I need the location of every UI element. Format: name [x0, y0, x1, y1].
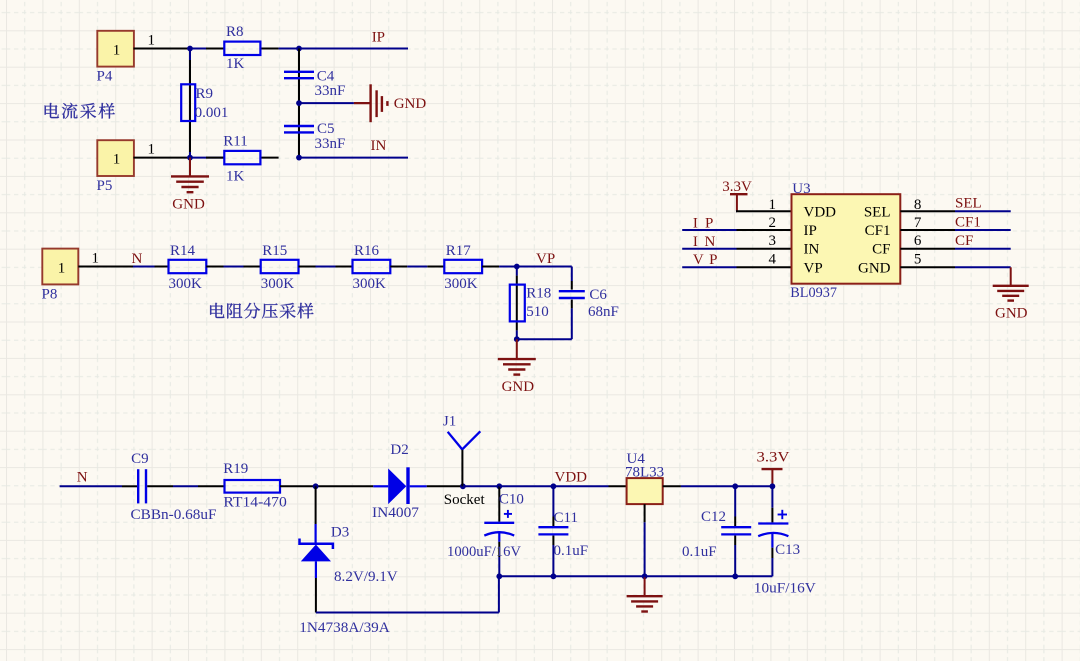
node junction VP	[514, 264, 520, 270]
wire C9 to R19	[147, 485, 224, 487]
ground GND under U4	[627, 576, 663, 611]
pin U4 right	[663, 485, 773, 487]
wire D2 to J1	[427, 485, 463, 487]
svg-text:33nF: 33nF	[315, 136, 346, 152]
wire net IP (U3)	[682, 215, 736, 231]
connector P4	[97, 31, 134, 85]
svg-text:C9: C9	[131, 451, 149, 467]
svg-text:300K: 300K	[261, 276, 295, 292]
wire R15-R16	[299, 266, 353, 268]
node junction C4-C5-GND	[296, 100, 302, 106]
svg-text:1: 1	[148, 32, 156, 48]
svg-text:GND: GND	[858, 260, 891, 276]
zener diode D3	[299, 486, 398, 636]
label 电流采样 (current sampling)	[45, 103, 115, 119]
svg-text:C10: C10	[499, 492, 524, 508]
svg-text:3: 3	[769, 233, 777, 249]
svg-text:0.1uF: 0.1uF	[682, 544, 717, 560]
svg-text:C13: C13	[775, 542, 800, 558]
svg-text:SEL: SEL	[955, 196, 982, 212]
node junction C10 bottom	[496, 573, 502, 579]
svg-text:GND: GND	[394, 96, 427, 112]
wire 3.3V to pin 1	[736, 210, 737, 212]
svg-text:1: 1	[113, 42, 121, 58]
svg-text:510: 510	[526, 304, 549, 320]
wire D3 bottom rail	[316, 576, 499, 612]
wire P8 to R14	[133, 266, 169, 268]
wire P4 node vertical	[189, 49, 191, 158]
power port GND (right-facing)	[354, 84, 426, 122]
pin 1 of P5	[134, 141, 191, 157]
wire net IN	[299, 138, 408, 158]
capacitor C6	[559, 267, 619, 340]
node junction P4-R9	[187, 46, 193, 52]
svg-text:33nF: 33nF	[315, 83, 346, 99]
op-amp U3 body	[790, 181, 900, 301]
svg-text:Socket: Socket	[444, 492, 486, 508]
pin 3 IN	[737, 233, 792, 249]
resistor R16	[353, 243, 391, 292]
svg-text:1: 1	[92, 250, 100, 266]
wire net CF1	[955, 214, 1011, 230]
wire VDD row	[499, 485, 608, 487]
svg-text:300K: 300K	[444, 276, 478, 292]
wire J1 to C10	[463, 485, 499, 487]
node junction C11 bottom	[551, 573, 557, 579]
svg-text:SEL: SEL	[864, 204, 891, 220]
resistor R14	[169, 243, 207, 292]
svg-text:CF: CF	[955, 233, 973, 249]
connector P5	[97, 140, 134, 194]
svg-text:300K: 300K	[353, 276, 387, 292]
svg-text:CBBn-0.68uF: CBBn-0.68uF	[131, 507, 217, 523]
capacitor C4	[284, 69, 345, 99]
svg-text:J1: J1	[443, 414, 456, 430]
resistor R11	[190, 133, 279, 184]
wire C4-C5 vertical	[298, 49, 300, 158]
bottom rail wire	[499, 575, 773, 577]
svg-text:R19: R19	[223, 461, 248, 477]
svg-text:P5: P5	[97, 178, 113, 194]
svg-text:C12: C12	[701, 509, 726, 525]
wire R16-R17	[390, 266, 444, 268]
power port 3.3V (bottom)	[757, 450, 790, 487]
node junction VDD-C11	[551, 483, 557, 489]
pin 2 IP	[737, 215, 792, 231]
svg-text:GND: GND	[172, 197, 205, 213]
svg-text:P8: P8	[42, 287, 58, 303]
svg-text:VP: VP	[804, 260, 823, 276]
capacitor C13 (polarized)	[754, 486, 816, 596]
pin U4 bottom	[644, 504, 646, 576]
resistor R15	[261, 243, 299, 292]
svg-text:D3: D3	[331, 525, 349, 541]
pin 5 GND	[900, 252, 955, 268]
pin 1 of P8	[78, 250, 133, 266]
svg-text:1K: 1K	[226, 169, 245, 185]
svg-text:IP: IP	[804, 223, 817, 239]
svg-text:C5: C5	[317, 121, 335, 137]
antenna J1 Socket	[443, 414, 486, 508]
svg-text:1K: 1K	[226, 56, 245, 72]
diode D2	[372, 442, 427, 521]
svg-text:IP: IP	[372, 30, 385, 46]
wire R19 to D2	[280, 485, 373, 487]
svg-text:GND: GND	[502, 379, 535, 395]
svg-text:0.1uF: 0.1uF	[554, 543, 589, 559]
wire net IP	[299, 30, 408, 49]
svg-text:IN: IN	[693, 234, 716, 250]
wire net IN (U3)	[682, 234, 736, 250]
svg-text:8: 8	[914, 197, 922, 213]
svg-text:N: N	[77, 470, 88, 486]
svg-text:CF1: CF1	[955, 214, 981, 230]
ground GND under P5	[171, 158, 209, 213]
svg-text:R15: R15	[262, 243, 287, 259]
svg-text:N: N	[132, 251, 143, 267]
wire net CF	[955, 233, 1011, 249]
wire to GND port	[299, 102, 354, 104]
node junction R18-C6-GND	[514, 336, 520, 342]
svg-text:BL0937: BL0937	[790, 285, 837, 301]
node junction C12 top	[732, 483, 738, 489]
svg-text:R16: R16	[354, 243, 380, 259]
svg-text:R18: R18	[526, 286, 551, 302]
resistor R19	[223, 461, 286, 510]
svg-text:U3: U3	[792, 181, 810, 197]
svg-text:VP: VP	[536, 251, 555, 267]
svg-text:C6: C6	[589, 287, 607, 303]
svg-text:RT14-470: RT14-470	[223, 495, 286, 511]
ground GND (U3)	[993, 267, 1029, 321]
resistor R18	[510, 267, 551, 340]
svg-text:CF1: CF1	[865, 223, 891, 239]
svg-text:300K: 300K	[169, 276, 203, 292]
pin 4 VP	[737, 252, 792, 268]
node junction C10 top	[496, 483, 502, 489]
svg-text:78L33: 78L33	[625, 464, 664, 480]
svg-text:GND: GND	[995, 306, 1028, 322]
svg-text:2: 2	[769, 215, 777, 231]
svg-text:VDD: VDD	[804, 204, 837, 220]
wire net VP (U3)	[682, 252, 736, 268]
label 电阻分压采样 (resistor divider sampling)	[210, 303, 313, 319]
svg-text:IN: IN	[371, 138, 387, 154]
svg-text:1: 1	[113, 152, 121, 168]
svg-text:6: 6	[914, 233, 922, 249]
ground GND below divider	[498, 339, 536, 395]
pin 7 CF1	[900, 215, 955, 231]
capacitor C10 (polarized)	[447, 492, 524, 577]
svg-text:1: 1	[58, 260, 66, 276]
wire N to C9	[60, 485, 137, 487]
node junction C5-R11	[296, 155, 302, 161]
wire C6 bottom to junction	[517, 338, 572, 340]
svg-text:P4: P4	[97, 69, 113, 85]
svg-text:5: 5	[914, 252, 922, 268]
svg-text:C11: C11	[554, 510, 578, 526]
svg-text:68nF: 68nF	[588, 304, 619, 320]
regulator U4 78L33	[625, 451, 664, 504]
wire pin 5 to GND	[955, 266, 1011, 268]
svg-text:1000uF/16V: 1000uF/16V	[447, 544, 521, 560]
svg-text:VDD: VDD	[555, 470, 588, 486]
node junction C12 bottom	[732, 573, 738, 579]
wire C10 top stem	[498, 486, 500, 521]
svg-text:7: 7	[914, 215, 922, 231]
pin 1 VDD	[736, 197, 792, 213]
node junction P5-GND	[187, 155, 193, 161]
connector P8	[42, 249, 79, 303]
svg-text:IN: IN	[804, 242, 820, 258]
node junction J1	[460, 483, 466, 489]
node junction 3.3V-C13	[770, 483, 776, 489]
pin 6 CF	[900, 233, 955, 249]
capacitor C9	[131, 451, 217, 523]
svg-text:R17: R17	[446, 243, 472, 259]
svg-text:3.3V: 3.3V	[722, 179, 752, 195]
svg-text:IN4007: IN4007	[372, 505, 420, 521]
wire R14-R15	[206, 266, 260, 268]
svg-text:1: 1	[769, 197, 777, 213]
node junction R8-C4	[296, 46, 302, 52]
pin 1 of P4	[134, 32, 191, 48]
svg-text:1N4738A/39A: 1N4738A/39A	[299, 620, 390, 636]
pin 8 SEL	[900, 197, 955, 213]
capacitor C5	[284, 121, 345, 152]
resistor R9	[181, 84, 228, 121]
capacitor C11	[538, 486, 588, 576]
resistor R17	[444, 243, 482, 292]
svg-text:R8: R8	[226, 24, 244, 40]
wire net SEL	[955, 196, 1011, 212]
capacitor C12	[682, 486, 751, 576]
svg-text:R11: R11	[223, 133, 247, 149]
node junction R19-D3	[313, 483, 319, 489]
svg-text:8.2V/9.1V: 8.2V/9.1V	[334, 569, 398, 585]
pin U4 left	[609, 485, 627, 487]
svg-text:1: 1	[148, 141, 156, 157]
power port 3.3V (U3)	[722, 179, 752, 211]
svg-text:4: 4	[769, 252, 777, 268]
resistor R8	[190, 24, 299, 72]
node junction U4 ground	[642, 573, 648, 579]
svg-text:10uF/16V: 10uF/16V	[754, 580, 816, 596]
svg-text:0.001: 0.001	[195, 105, 229, 121]
wire VP to C6	[517, 266, 572, 268]
svg-text:R14: R14	[170, 243, 196, 259]
wire R17 to VP node	[482, 266, 517, 268]
svg-text:CF: CF	[872, 242, 890, 258]
svg-text:R9: R9	[196, 86, 214, 102]
svg-text:D2: D2	[390, 442, 408, 458]
svg-text:3.3V: 3.3V	[757, 450, 790, 466]
